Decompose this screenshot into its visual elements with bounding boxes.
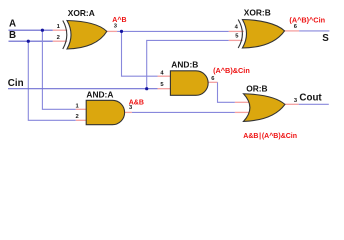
junction node on wire A: [41, 29, 44, 32]
junction node on wire A^B: [120, 30, 123, 33]
wire Cout output: [299, 103, 329, 105]
xor gate XOR:B outer arc: [238, 20, 242, 49]
pin stub AND:A pin1: [76, 108, 87, 110]
svg-text:AND:A: AND:A: [86, 90, 113, 100]
pin stub OR:B pin2: [235, 111, 250, 113]
junction node on wire B: [27, 40, 30, 43]
wire A^B branch vertical to AND:B pin4: [122, 31, 158, 76]
wire B horizontal: [9, 40, 53, 42]
svg-text:A: A: [9, 18, 16, 29]
pin stub AND:B pin5: [158, 88, 172, 90]
svg-text:A&B: A&B: [129, 99, 144, 106]
pin stub XOR:B pin5: [229, 39, 243, 41]
svg-text:AND:B: AND:B: [171, 59, 198, 69]
svg-text:2: 2: [57, 35, 60, 41]
svg-text:A^B: A^B: [112, 16, 126, 24]
pin stub AND:B pin4: [158, 75, 172, 77]
pin stub XOR:A pin2: [53, 40, 67, 42]
svg-text:2: 2: [76, 114, 79, 120]
pin stub AND:B output pin6: [208, 81, 217, 83]
pin stub AND:A output pin3: [125, 111, 132, 113]
svg-text:Cout: Cout: [299, 93, 322, 104]
and gate U3 AND:B body: [170, 71, 208, 96]
or gate U5 OR:B body: [244, 94, 285, 122]
svg-text:XOR:B: XOR:B: [244, 8, 271, 18]
pin stub AND:A pin2: [76, 119, 87, 121]
svg-text:S: S: [322, 33, 329, 44]
wire A branch vertical to AND:A pin1: [42, 30, 75, 109]
xor gate U2 XOR:B body: [242, 20, 284, 49]
wire A&B horizontal to OR:B pin2: [132, 111, 235, 113]
pin stub XOR:A pin1: [53, 29, 68, 31]
wire Cin riser to XOR:B pin5: [147, 40, 229, 88]
svg-text:OR:B: OR:B: [246, 83, 267, 93]
pin stub OR:B output pin3: [285, 103, 299, 105]
pin stub XOR:A output pin3: [107, 30, 118, 32]
junction node on wire Cin: [145, 87, 148, 90]
wire A^B horizontal to XOR:B pin4: [117, 30, 229, 32]
wire Cin horizontal: [8, 88, 158, 90]
svg-text:(A^B)^Cin: (A^B)^Cin: [289, 15, 325, 24]
svg-text:A&B|(A^B)&Cin: A&B|(A^B)&Cin: [243, 132, 297, 140]
svg-text:Cin: Cin: [8, 78, 24, 89]
and gate U4 AND:A body: [86, 100, 124, 124]
xor gate U1 XOR:A body: [67, 21, 107, 50]
xor gate XOR:A outer arc: [63, 21, 67, 50]
pin stub XOR:B output pin6: [284, 30, 299, 32]
pin stub XOR:B pin4: [229, 30, 244, 32]
svg-text:B: B: [9, 30, 16, 41]
pin stub OR:B pin1: [235, 101, 249, 103]
wire B branch vertical to AND:A pin2: [28, 41, 76, 120]
svg-text:XOR:A: XOR:A: [68, 8, 95, 18]
wire S output: [299, 30, 329, 32]
svg-text:(A^B)&Cin: (A^B)&Cin: [213, 66, 250, 75]
wire AND:B output to OR:B pin1: [218, 82, 235, 102]
wire A horizontal: [9, 29, 53, 31]
